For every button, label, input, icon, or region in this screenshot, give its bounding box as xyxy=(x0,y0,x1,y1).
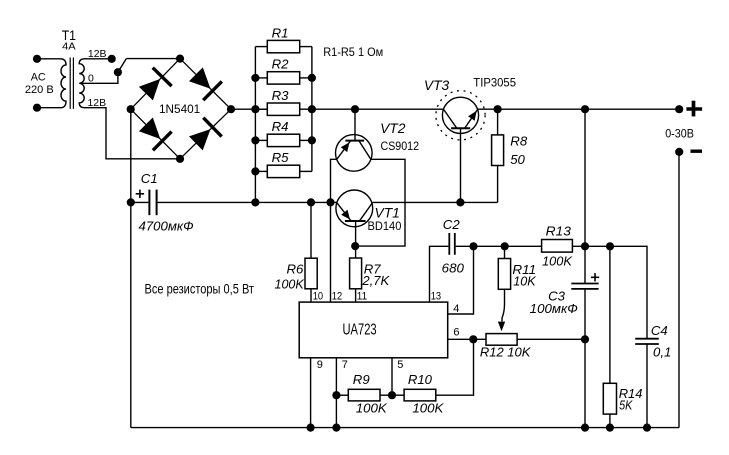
primary terminal node top xyxy=(33,55,41,63)
resistor R14 xyxy=(603,383,616,414)
svg-text:AC: AC xyxy=(31,72,46,84)
svg-text:7: 7 xyxy=(342,359,348,371)
resistor R7 xyxy=(350,258,362,289)
wire C1 rail right xyxy=(158,201,337,203)
transistor VT3 (TIP3055 NPN) with dotted ring xyxy=(436,91,485,140)
wire R11 top lead xyxy=(504,246,506,258)
node pin9 bottom rail xyxy=(307,424,315,432)
primary terminal node bottom xyxy=(33,104,41,112)
wire C3 bottom lead xyxy=(584,289,586,339)
wire R6 top lead xyxy=(310,202,312,258)
IC UA723 box xyxy=(299,302,448,358)
svg-text:R9: R9 xyxy=(353,372,371,387)
resistor R3 xyxy=(267,103,299,115)
svg-text:4: 4 xyxy=(453,303,459,315)
resistor R8 xyxy=(492,135,504,166)
svg-text:C4: C4 xyxy=(651,323,668,338)
node R6 top on C1 rail xyxy=(307,198,315,206)
svg-text:12: 12 xyxy=(332,291,342,303)
svg-text:2,7K: 2,7K xyxy=(361,273,390,288)
svg-text:TIP3055: TIP3055 xyxy=(473,76,516,90)
wire C3 top lead xyxy=(584,246,586,283)
capacitor C4 plates xyxy=(635,338,659,340)
wire VT2 emitter to pin12 xyxy=(331,159,337,302)
wire C4 bottom lead xyxy=(646,344,648,428)
node C3 top junction xyxy=(581,242,589,250)
svg-text:R2: R2 xyxy=(272,57,290,72)
wire to bridge top xyxy=(126,58,180,60)
wire pin 4 xyxy=(448,246,474,314)
transistor VT1 (BD140 PNP) xyxy=(336,190,373,227)
svg-text:220 В: 220 В xyxy=(25,84,54,96)
node mid tap corner xyxy=(114,68,122,76)
resistor R1 xyxy=(267,40,299,52)
wire R8 top lead xyxy=(497,109,499,135)
wire main rail R3 to VT3 xyxy=(312,108,444,110)
wire output rail down to C3 xyxy=(584,109,586,246)
wire R2 row leads xyxy=(255,77,267,79)
svg-text:4700мкФ: 4700мкФ xyxy=(139,219,194,234)
wire right rail of R1-R5 xyxy=(311,47,313,172)
wire C3 junction down to rail xyxy=(584,339,586,427)
capacitor C1 plates xyxy=(148,190,150,216)
capacitor C2 plates xyxy=(448,233,450,255)
svg-text:R3: R3 xyxy=(272,88,290,103)
node bridge left xyxy=(127,105,135,113)
svg-text:50: 50 xyxy=(510,152,525,167)
svg-text:R4: R4 xyxy=(272,119,289,134)
wire VT2 base xyxy=(354,109,356,140)
svg-text:5: 5 xyxy=(397,359,403,371)
svg-text:UA723: UA723 xyxy=(343,322,377,339)
transistor VT2 (CS9012 PNP) xyxy=(336,135,373,172)
node C1 left xyxy=(127,198,135,206)
svg-text:6: 6 xyxy=(453,327,459,339)
svg-text:R5: R5 xyxy=(272,150,290,165)
diode bridge D4 (bottom to right) xyxy=(180,109,231,159)
svg-text:Все резисторы 0,5 Вт: Все резисторы 0,5 Вт xyxy=(145,282,255,297)
plus output symbol xyxy=(686,107,702,110)
svg-text:10K: 10K xyxy=(513,273,537,288)
node left rail R5 xyxy=(251,167,259,175)
wire main rail VT3 to plus xyxy=(478,108,680,110)
svg-text:R10: R10 xyxy=(408,372,433,387)
wire VT1 base to R7 xyxy=(355,221,357,246)
wire pin 7 down xyxy=(335,358,337,428)
node feedback rail bottom xyxy=(581,424,589,432)
wire row R11 to R13 xyxy=(505,245,542,247)
capacitor C1 plus xyxy=(136,193,144,195)
resistor R9 xyxy=(348,389,380,401)
wire VT1 collector xyxy=(373,201,498,203)
diode bridge D3 (left to bottom) xyxy=(131,109,180,159)
resistor R2 xyxy=(267,72,299,84)
wire R9 left lead xyxy=(336,394,348,396)
node left rail R4 xyxy=(251,136,259,144)
wire VT2 collector xyxy=(355,159,405,246)
wire R13 right lead xyxy=(572,245,585,247)
wire left rail of R1-R5 xyxy=(254,47,256,203)
wire R8 bottom lead xyxy=(497,166,499,203)
wire row C2 to R11 xyxy=(474,245,505,247)
wire R11 wiper lead xyxy=(502,289,505,321)
node R14 bottom rail xyxy=(606,424,614,432)
node C4 bottom rail xyxy=(643,424,651,432)
wire R12 right lead xyxy=(517,338,585,340)
transformer T1 secondary winding xyxy=(79,59,84,108)
wire pin 6 xyxy=(448,338,474,340)
resistor R11 xyxy=(498,259,510,290)
transformer T1 primary winding xyxy=(37,59,66,108)
wire R1 row leads xyxy=(255,46,267,48)
diode bridge D2 (top to right) xyxy=(180,59,231,110)
node R8 top xyxy=(494,105,502,113)
node right rail R2 xyxy=(308,74,316,82)
svg-text:100K: 100K xyxy=(356,401,388,416)
wire bridge left down to C1 xyxy=(130,109,132,202)
svg-text:100K: 100K xyxy=(275,276,305,291)
node output rail to feedback xyxy=(581,105,589,113)
node right rail R4 xyxy=(308,136,316,144)
node left rail R3 xyxy=(251,105,259,113)
node minus terminal xyxy=(675,148,683,156)
wire R4 row leads xyxy=(255,139,267,141)
wire R14 top lead xyxy=(609,246,611,383)
node R9 R10 pin5 junction xyxy=(388,391,396,399)
wire R12 left lead xyxy=(473,338,486,340)
svg-text:VT1: VT1 xyxy=(375,205,400,220)
node VT1 base R7 junction xyxy=(351,242,359,250)
svg-text:680: 680 xyxy=(442,261,465,276)
R11 wiper arrowhead xyxy=(498,322,505,332)
node right rail R3 xyxy=(308,105,316,113)
transformer T1 core xyxy=(69,58,71,109)
node R11 top junction xyxy=(501,242,509,250)
node pin7 R9 junction xyxy=(332,391,340,399)
resistor R10 xyxy=(404,389,436,401)
svg-text:VT3: VT3 xyxy=(424,78,450,93)
svg-text:5K: 5K xyxy=(619,398,633,413)
resistor R13 xyxy=(542,240,573,253)
wire R6 to pin 10 xyxy=(310,289,312,302)
wire row C3 to R14 branch xyxy=(585,245,610,247)
wire R5 row leads xyxy=(255,170,267,172)
node R14 branch junction xyxy=(606,242,614,250)
diode bridge D1 (left to top) xyxy=(131,59,180,110)
wire bottom ground rail xyxy=(131,427,679,429)
svg-text:R13: R13 xyxy=(546,224,572,239)
svg-text:9: 9 xyxy=(317,359,323,371)
wire VT3 base down xyxy=(460,128,462,202)
node VT2 base on rail xyxy=(351,105,359,113)
node pin6 R12 junction xyxy=(469,335,477,343)
wire R3 row leads xyxy=(255,108,267,110)
wire R10 left lead xyxy=(392,394,404,396)
svg-text:CS9012: CS9012 xyxy=(381,139,420,153)
svg-text:13: 13 xyxy=(431,291,441,303)
node C3 bottom R12 junction xyxy=(581,335,589,343)
svg-text:0: 0 xyxy=(88,72,94,84)
wire pin 5 down xyxy=(391,358,393,395)
wire row to C4 xyxy=(610,246,647,338)
wire main rail bridge to R3 xyxy=(231,108,267,110)
svg-text:C1: C1 xyxy=(141,171,158,186)
node VT1 VT2 emitter junction xyxy=(326,198,334,206)
node plus terminal xyxy=(675,105,683,113)
wire switch diagonal xyxy=(118,59,126,73)
potentiometer R12 xyxy=(486,334,517,346)
capacitor C3 plus xyxy=(591,276,599,278)
wire C1 down left edge xyxy=(130,202,132,427)
wire pin 13 to C2 xyxy=(430,246,449,302)
svg-text:BD140: BD140 xyxy=(368,219,402,233)
wire secondary bottom tap xyxy=(84,108,180,159)
svg-text:100мкФ: 100мкФ xyxy=(530,301,578,316)
wire secondary mid tap xyxy=(81,72,118,83)
wire R9 right lead xyxy=(380,394,392,396)
svg-text:4A: 4A xyxy=(62,40,76,52)
svg-text:R8: R8 xyxy=(510,133,528,148)
node top tap end xyxy=(108,55,116,63)
node left rail at C1 rail xyxy=(251,198,259,206)
node bridge top xyxy=(176,55,184,63)
svg-text:100K: 100K xyxy=(412,401,444,416)
resistor R4 xyxy=(267,134,299,146)
svg-text:R1: R1 xyxy=(272,25,289,40)
wire R14 bottom lead xyxy=(609,414,611,428)
svg-text:R1-R5 1 Ом: R1-R5 1 Ом xyxy=(323,45,383,59)
node pin7 bottom rail xyxy=(332,424,340,432)
svg-text:11: 11 xyxy=(357,291,367,303)
wire R7 to pin 11 xyxy=(355,289,357,302)
capacitor C3 plates xyxy=(571,283,598,285)
svg-text:100K: 100K xyxy=(542,253,573,268)
minus output symbol xyxy=(691,149,703,152)
node pin4 top junction xyxy=(469,242,477,250)
svg-text:1N5401: 1N5401 xyxy=(159,102,200,116)
svg-text:0-30В: 0-30В xyxy=(665,126,694,140)
svg-text:R6: R6 xyxy=(286,262,304,277)
svg-text:0,1: 0,1 xyxy=(653,345,671,360)
svg-text:R12 10K: R12 10K xyxy=(480,345,532,360)
resistor R6 xyxy=(305,258,317,289)
wire C2 right lead xyxy=(456,245,474,247)
node left rail R2 xyxy=(251,74,259,82)
wire C1 left lead xyxy=(131,201,149,203)
wire R10 right lead up to pin6 xyxy=(436,339,474,395)
svg-text:C2: C2 xyxy=(443,217,461,232)
wire secondary top tap xyxy=(84,58,112,60)
svg-text:VT2: VT2 xyxy=(380,121,406,136)
svg-text:10: 10 xyxy=(313,291,323,303)
node VT3 base junction xyxy=(456,198,464,206)
node bridge bottom xyxy=(176,155,184,163)
node bridge right xyxy=(227,105,235,113)
wire pin 9 down xyxy=(310,358,312,428)
wire minus terminal down xyxy=(678,152,680,428)
resistor R5 xyxy=(267,165,299,177)
wire R7 top lead xyxy=(355,246,357,258)
